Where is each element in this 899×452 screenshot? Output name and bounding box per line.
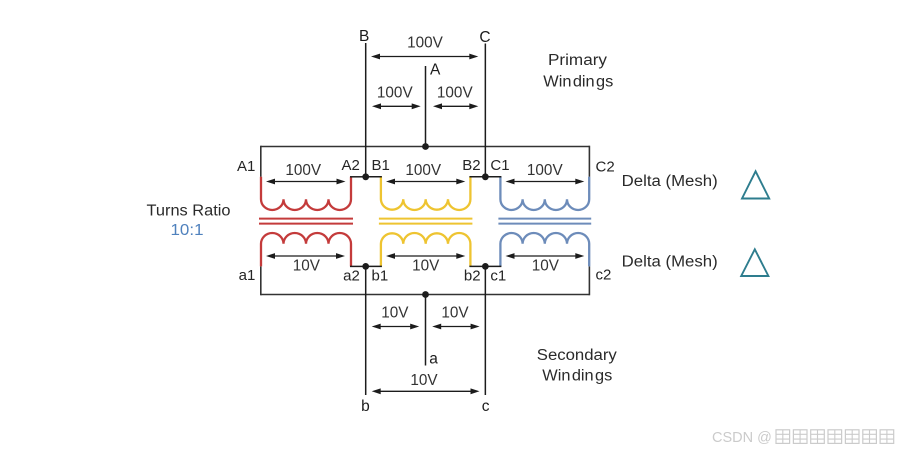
symbol: delta triangle secondary [741, 249, 768, 276]
svg-text:10V: 10V [410, 372, 438, 389]
svg-text:10V: 10V [293, 258, 321, 275]
svg-text:a2: a2 [343, 268, 360, 285]
dimension arrow a-c 10V [432, 324, 479, 330]
watermark CJK characters (drawn) [776, 430, 894, 444]
svg-text:b1: b1 [372, 268, 389, 285]
svg-text:Secondary: Secondary [537, 347, 617, 364]
wire: node B to B1 jog [366, 176, 382, 178]
symbol: delta triangle primary [742, 171, 769, 198]
svg-text:100V: 100V [527, 162, 564, 179]
svg-text:A1: A1 [237, 158, 255, 175]
svg-text:Primary: Primary [548, 52, 607, 69]
node b junction dot [362, 263, 369, 270]
wire: phase line C vertical [484, 44, 486, 177]
svg-text:Win din gs: Win din gs [542, 367, 612, 384]
wire: left edge bottom stub (node a1) [260, 266, 262, 295]
node B junction dot [362, 173, 369, 180]
dimension arrow B-C 100V [371, 54, 478, 60]
svg-text:C: C [479, 29, 490, 46]
dimension arrow b-c 10V [372, 388, 480, 394]
node A junction dot [422, 143, 429, 150]
svg-text:10V: 10V [441, 304, 469, 321]
transformer core phase A (red) [259, 219, 353, 224]
transformer core phase B (yellow) [379, 219, 473, 224]
wire: right edge bottom stub (node c2) [588, 266, 590, 295]
svg-text:100V: 100V [407, 35, 444, 52]
annotation: Secondary Windings [537, 347, 617, 384]
wire: phase line a vertical [425, 295, 427, 366]
svg-text:C2: C2 [596, 159, 615, 176]
wire: node C to C1 jog [485, 176, 501, 178]
wire: a2 to node b jog [350, 265, 366, 267]
annotation: Primary Windings [543, 52, 613, 91]
svg-text:b2: b2 [464, 268, 481, 285]
svg-text:c: c [482, 398, 490, 415]
secondary winding phase C (blue) c1-c2 [500, 233, 589, 266]
dimension arrow B-A 100V [372, 103, 421, 109]
node c junction dot [482, 263, 489, 270]
svg-text:c2: c2 [596, 267, 612, 284]
svg-text:10V: 10V [412, 258, 440, 275]
wire: b2 to node c jog [469, 265, 485, 267]
wire: left edge top stub (node A1) [260, 146, 262, 177]
primary winding phase C (blue) C1-C2 [500, 177, 589, 210]
wire: outer delta loop top rail [261, 146, 590, 148]
wire: B2 to node C jog [469, 176, 485, 178]
svg-text:B2: B2 [462, 157, 480, 174]
dimension arrow A-C 100V [433, 103, 478, 109]
svg-text:C1: C1 [490, 157, 509, 174]
wire: right edge top stub (node C2) [588, 146, 590, 177]
svg-text:B1: B1 [372, 157, 390, 174]
secondary winding phase B (yellow) b1-b2 [381, 233, 471, 266]
svg-text:a1: a1 [239, 267, 256, 284]
wire: phase line B vertical [365, 43, 367, 177]
wire: node c to c1 jog [485, 265, 501, 267]
svg-text:10:1: 10:1 [171, 222, 204, 239]
svg-text:Delta (Mesh): Delta (Mesh) [622, 253, 718, 270]
svg-text:a: a [429, 350, 438, 367]
svg-text:CSDN @: CSDN @ [712, 430, 772, 446]
svg-text:c1: c1 [490, 268, 506, 285]
wire: node b to b1 jog [366, 265, 382, 267]
dimension arrow primary B 100V [386, 179, 465, 185]
wire: A2 to node B jog [350, 176, 366, 178]
dimension arrow secondary b 10V [386, 253, 465, 259]
svg-text:10V: 10V [532, 258, 560, 275]
node a junction dot [422, 291, 429, 298]
wire: phase line A vertical [425, 66, 427, 147]
svg-text:Turns Ratio: Turns Ratio [147, 202, 231, 219]
svg-text:A2: A2 [341, 157, 359, 174]
svg-text:100V: 100V [437, 84, 474, 101]
dimension arrow secondary a 10V [266, 253, 345, 259]
wire: outer delta loop bottom rail [261, 294, 590, 296]
node C junction dot [482, 173, 489, 180]
dimension arrow secondary c 10V [506, 253, 585, 259]
svg-text:10V: 10V [381, 304, 409, 321]
svg-text:b: b [361, 398, 370, 415]
wire: phase line b vertical [365, 266, 367, 395]
svg-text:100V: 100V [377, 84, 414, 101]
secondary winding phase A (red) a1-a2 [261, 233, 351, 266]
primary winding phase B (yellow) B1-B2 [381, 177, 471, 210]
svg-text:100V: 100V [285, 162, 322, 179]
svg-text:A: A [430, 61, 441, 78]
svg-text:B: B [359, 28, 369, 45]
primary winding phase A (red) A1-A2 [261, 177, 351, 210]
dimension arrow primary C 100V [506, 179, 585, 185]
transformer core phase C (blue) [498, 219, 591, 224]
svg-text:Win din gs: Win din gs [543, 74, 613, 91]
dimension arrow primary A 100V [266, 179, 346, 185]
wire: phase line c vertical [484, 266, 486, 395]
svg-text:Delta (Mesh): Delta (Mesh) [622, 173, 718, 190]
dimension arrow b-a 10V [372, 324, 420, 330]
svg-text:100V: 100V [405, 162, 442, 179]
